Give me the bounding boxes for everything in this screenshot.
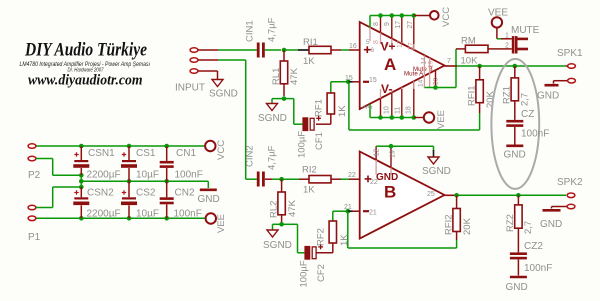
svg-text:10µF: 10µF [136, 170, 159, 181]
svg-text:4,7µF: 4,7µF [267, 145, 278, 170]
svg-text:RFI1: RFI1 [467, 85, 478, 106]
svg-text:V-: V- [381, 82, 392, 96]
svg-text:P2: P2 [28, 170, 41, 181]
svg-text:GND: GND [376, 172, 398, 183]
svg-text:P1: P1 [28, 232, 41, 243]
svg-text:19: 19 [428, 60, 435, 68]
svg-text:CS1: CS1 [136, 148, 156, 159]
svg-text:SPK1: SPK1 [557, 48, 583, 59]
svg-text:100µF: 100µF [299, 260, 310, 287]
svg-text:100nF: 100nF [521, 129, 549, 140]
svg-text:SGND: SGND [263, 240, 292, 251]
svg-text:A: A [384, 55, 396, 74]
svg-text:B: B [384, 183, 396, 202]
svg-text:15: 15 [369, 77, 377, 84]
svg-text:25: 25 [427, 191, 435, 198]
svg-text:1K: 1K [303, 185, 315, 196]
svg-text:21: 21 [369, 210, 377, 217]
svg-text:14: 14 [418, 79, 425, 87]
svg-text:19: 19 [390, 150, 397, 158]
svg-text:RZ1: RZ1 [502, 86, 513, 104]
svg-text:RF2: RF2 [316, 228, 327, 246]
svg-text:2200µF: 2200µF [87, 209, 121, 220]
svg-text:1K: 1K [303, 56, 315, 67]
svg-text:RI2: RI2 [302, 165, 317, 176]
svg-text:5: 5 [366, 39, 370, 46]
svg-text:RZ2: RZ2 [505, 214, 516, 232]
svg-text:2: 2 [505, 43, 509, 50]
svg-text:22: 22 [348, 172, 356, 179]
svg-text:GND: GND [504, 150, 526, 161]
svg-text:17: 17 [397, 40, 404, 48]
svg-text:RI1: RI1 [303, 37, 318, 48]
svg-text:2,7: 2,7 [523, 221, 534, 234]
svg-text:CZ2: CZ2 [524, 241, 543, 252]
svg-text:16: 16 [349, 43, 357, 50]
svg-text:V+: V+ [381, 40, 396, 54]
svg-text:2,7: 2,7 [520, 93, 531, 106]
svg-text:9: 9 [384, 22, 391, 26]
svg-text:GND: GND [540, 219, 562, 230]
svg-text:11: 11 [395, 107, 402, 114]
svg-text:CS2: CS2 [136, 188, 156, 199]
svg-text:CF1: CF1 [314, 132, 325, 150]
svg-text:www.diyaudiotr.com: www.diyaudiotr.com [28, 73, 143, 89]
svg-text:CSN2: CSN2 [87, 188, 114, 199]
svg-text:SGND: SGND [258, 113, 287, 124]
svg-text:100nF: 100nF [174, 209, 202, 220]
svg-text:RF1: RF1 [314, 99, 325, 117]
svg-text:47K: 47K [289, 67, 300, 85]
svg-text:100µF: 100µF [297, 131, 308, 158]
svg-text:MUTE: MUTE [511, 25, 540, 36]
svg-text:CZ: CZ [521, 109, 534, 120]
svg-text:GND: GND [198, 194, 220, 205]
svg-text:CIN2: CIN2 [245, 145, 256, 167]
svg-text:8: 8 [373, 40, 380, 44]
svg-text:Mute A: Mute A [404, 71, 424, 78]
svg-text:RM: RM [461, 36, 476, 47]
svg-text:CSN1: CSN1 [88, 148, 115, 159]
svg-text:47K: 47K [287, 199, 298, 217]
svg-text:GND: GND [506, 282, 528, 293]
svg-text:20K: 20K [462, 217, 473, 235]
svg-text:2200µF: 2200µF [87, 170, 121, 181]
svg-text:VCC: VCC [216, 140, 227, 160]
svg-text:GND: GND [537, 91, 559, 102]
svg-text:27: 27 [407, 21, 414, 29]
svg-text:4,7µF: 4,7µF [267, 17, 278, 42]
svg-text:2: 2 [362, 105, 369, 109]
svg-text:RFI2: RFI2 [444, 214, 455, 235]
svg-text:SGND: SGND [422, 166, 451, 177]
svg-text:CN2: CN2 [175, 188, 195, 199]
svg-text:SPK2: SPK2 [557, 177, 583, 188]
svg-text:6: 6 [371, 47, 375, 54]
svg-text:CN1: CN1 [176, 148, 196, 159]
svg-text:27: 27 [408, 42, 415, 50]
svg-text:18: 18 [406, 106, 413, 114]
svg-text:CIN1: CIN1 [245, 20, 256, 42]
svg-text:17: 17 [395, 21, 402, 29]
svg-text:VEE: VEE [436, 110, 447, 129]
svg-text:DIY Audio Türkiye: DIY Audio Türkiye [24, 40, 147, 61]
svg-text:RL2: RL2 [269, 201, 280, 218]
svg-text:10µF: 10µF [136, 209, 159, 220]
svg-text:SGND: SGND [209, 89, 238, 100]
svg-text:CF2: CF2 [316, 264, 327, 282]
svg-text:RL1: RL1 [271, 68, 282, 85]
svg-text:12: 12 [374, 149, 381, 157]
svg-text:VEE: VEE [216, 214, 227, 233]
svg-text:10: 10 [384, 106, 391, 114]
svg-text:7: 7 [447, 58, 451, 65]
svg-text:INPUT: INPUT [175, 83, 205, 94]
svg-text:100nF: 100nF [175, 170, 203, 181]
svg-text:8: 8 [373, 22, 380, 26]
svg-text:100nF: 100nF [524, 263, 552, 274]
svg-text:10K: 10K [461, 56, 479, 67]
svg-text:1K: 1K [337, 105, 348, 117]
svg-text:VCC: VCC [441, 7, 452, 27]
